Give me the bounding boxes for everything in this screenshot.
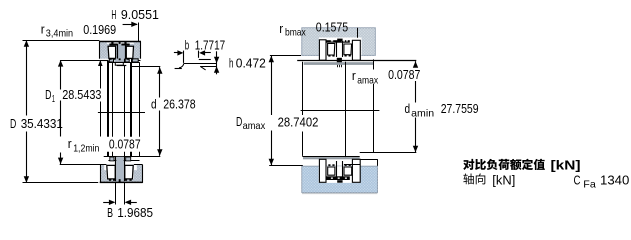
dimension D_amax (vertical) bbox=[269, 56, 303, 166]
bearing cross-section left view: top section (housing/shaft washers + rollers) bbox=[99, 42, 141, 61]
left view: bore line (d top) bbox=[132, 66, 161, 68]
svg-text:35.4331: 35.4331 bbox=[21, 116, 63, 131]
left view: bore vertical lines between sections (with gap at r_1,2min label) bbox=[108, 59, 140, 156]
svg-text:d: d bbox=[405, 101, 411, 116]
svg-text:B: B bbox=[107, 205, 113, 220]
right view: bearing outline in top notch bbox=[319, 39, 360, 61]
right view: shaft/housing outline verticals bbox=[303, 59, 374, 157]
right view: centre pin below seat line bbox=[337, 58, 342, 67]
svg-text:amax: amax bbox=[357, 74, 378, 86]
row: axial [kN] bbox=[463, 173, 473, 184]
dimension d 26.378 (vertical, right of section) bbox=[157, 67, 162, 156]
dimension H 9.0551 (top) bbox=[123, 22, 139, 42]
svg-text:1.7717: 1.7717 bbox=[195, 38, 226, 53]
heading (bold CJK): load ratings bbox=[463, 159, 474, 170]
right view: housing seat lines (bottom) bbox=[360, 152, 417, 154]
svg-text:1: 1 bbox=[52, 93, 55, 105]
svg-text:b: b bbox=[185, 38, 189, 53]
right view: grey shadow under bottom block bbox=[302, 193, 377, 195]
left view: rollers in bottom section bbox=[107, 165, 133, 179]
svg-text:Fa: Fa bbox=[583, 178, 596, 190]
svg-text:bmax: bmax bbox=[285, 26, 306, 38]
svg-text:r: r bbox=[68, 136, 72, 151]
svg-text:3,4min: 3,4min bbox=[46, 28, 73, 40]
left view: tapered rollers (white) in top section bbox=[108, 46, 133, 58]
left view: centre washer column (bottom) bbox=[116, 156, 125, 181]
svg-text:D: D bbox=[45, 87, 51, 102]
svg-text:r: r bbox=[352, 68, 356, 83]
svg-text:amax: amax bbox=[243, 120, 266, 132]
svg-text:h: h bbox=[229, 55, 233, 70]
left view: cage rails and marks (top section) bbox=[109, 41, 133, 60]
svg-text:27.7559: 27.7559 bbox=[441, 101, 479, 116]
svg-text:H: H bbox=[111, 7, 116, 22]
svg-text:1340: 1340 bbox=[600, 172, 629, 187]
left view: bottom section body bbox=[100, 165, 143, 183]
svg-text:0.472: 0.472 bbox=[236, 55, 266, 70]
svg-text:D: D bbox=[10, 116, 16, 131]
svg-text:C: C bbox=[574, 172, 581, 187]
svg-text:0.0787: 0.0787 bbox=[388, 67, 420, 82]
right view: grey washer band top bbox=[304, 62, 374, 65]
svg-text:1.9685: 1.9685 bbox=[117, 205, 153, 220]
left view: axis centreline bbox=[98, 112, 145, 114]
svg-text:28.7402: 28.7402 bbox=[278, 115, 319, 130]
left view: cage marks bottom section bbox=[109, 179, 132, 183]
svg-text:0.1969: 0.1969 bbox=[83, 22, 116, 37]
left view: small washer squares below rollers (top section) bbox=[109, 59, 138, 62]
svg-text:0.1575: 0.1575 bbox=[316, 19, 348, 34]
detail: washer lip profile with b and h dimensions bbox=[174, 50, 219, 74]
r_1,2min leader line bbox=[98, 60, 103, 137]
left view: small washer squares (bottom) bbox=[110, 157, 114, 161]
svg-text:amin: amin bbox=[411, 108, 434, 120]
left view: washer face lines below top section bbox=[109, 62, 140, 64]
svg-text:0.0787: 0.0787 bbox=[109, 137, 141, 152]
svg-text:26.378: 26.378 bbox=[163, 97, 195, 112]
svg-text:9.0551: 9.0551 bbox=[121, 7, 159, 22]
dimension D 35.4331 (vertical, far left) bbox=[23, 40, 100, 182]
svg-text:[kN]: [kN] bbox=[551, 158, 581, 173]
svg-text:r: r bbox=[41, 22, 45, 37]
left view: centre washer column (top) bbox=[114, 44, 127, 66]
svg-text:28.5433: 28.5433 bbox=[62, 87, 101, 102]
left view: bottom section top line (d bottom target) bbox=[104, 156, 161, 158]
svg-text:D: D bbox=[236, 114, 242, 129]
dimension D1 28.5433 bbox=[58, 60, 100, 164]
dimension d_amin (vertical) bbox=[413, 61, 418, 152]
right view: housing block (bottom) bbox=[302, 166, 378, 192]
svg-text:d: d bbox=[151, 97, 157, 112]
right view: shaft block (top) bbox=[302, 28, 376, 56]
left view: bottom washer face line bbox=[108, 160, 139, 162]
right view: axis centreline bbox=[301, 110, 380, 112]
svg-text:1,2min: 1,2min bbox=[73, 142, 99, 154]
right view: bearing outline in bottom notch bbox=[319, 159, 360, 182]
dimension B 1.9685 (bottom) bbox=[103, 183, 137, 205]
right view: seat line (d_amin top target) bbox=[297, 60, 416, 62]
svg-text:r: r bbox=[279, 21, 283, 36]
svg-text:[kN]: [kN] bbox=[492, 173, 515, 188]
